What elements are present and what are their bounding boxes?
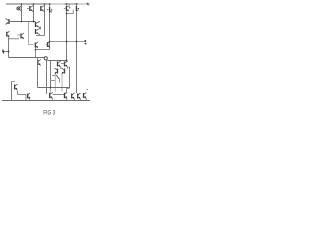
junction top rail at Q2 <box>33 3 35 5</box>
wire right quad jog drop <box>66 88 68 93</box>
svg-text:FIG 3: FIG 3 <box>43 111 56 117</box>
junction output at Q5 drop <box>66 41 68 43</box>
transistor Q9 <box>36 28 41 34</box>
wire node to quad <box>47 60 66 62</box>
wire right quad drop <box>69 67 71 89</box>
junction output at Q4 drop <box>49 41 51 43</box>
junction top rail at Q6 <box>76 3 78 5</box>
wire positive supply rail mid <box>51 3 64 5</box>
wire Q5 Q6 base tie <box>67 10 74 14</box>
transistor Q13 <box>38 59 41 65</box>
terminal input <box>3 50 4 54</box>
wire Q10 Q11 tie <box>9 38 20 40</box>
wire input lead <box>2 51 9 53</box>
wire mirror drop <box>28 22 30 45</box>
transistor Q16 <box>55 68 58 74</box>
wire quad base tie top <box>61 63 65 65</box>
terminal output upper <box>84 40 86 42</box>
wire Q23 emitter to rail <box>80 99 82 101</box>
wire Q21 emitter to rail <box>66 99 68 101</box>
transistor Q2 <box>30 5 34 11</box>
wire Q5 emitter drop <box>66 11 68 60</box>
wire Q22 emitter to rail <box>74 99 76 101</box>
transistor Q11 <box>21 33 24 39</box>
transistor Q22 <box>72 93 75 99</box>
transistor Q15 <box>65 61 68 67</box>
wire Q20 emitter to rail <box>52 99 54 101</box>
junction base bus <box>50 87 52 89</box>
node circle <box>44 57 47 60</box>
junction quad top <box>66 60 68 62</box>
wire Q5 rail hook <box>69 4 71 8</box>
junction top rail at Q1 <box>21 3 23 5</box>
wire Q13 drop <box>37 58 39 88</box>
junction top rail at Q4 <box>49 3 51 5</box>
wire Q19 base drop <box>25 95 27 101</box>
wire q16 corner <box>51 80 56 82</box>
transistor Q14 <box>58 61 61 67</box>
transistor Q17 <box>62 68 65 74</box>
terminal output lower <box>85 43 87 45</box>
wire right quad jog <box>67 87 70 89</box>
wire Q5 collector stub <box>66 4 68 6</box>
transistor Q12 <box>48 41 51 47</box>
junction base tie <box>66 13 68 15</box>
wire positive supply rail right <box>64 3 78 5</box>
transistor Q18 <box>15 84 18 90</box>
junction input node <box>8 51 10 53</box>
transistor Q1 <box>17 6 22 12</box>
wire Q24 collector tick <box>86 89 88 91</box>
wire Q4 emitter drop <box>49 13 51 50</box>
junction top rail at Q5 <box>66 3 68 5</box>
junction top rail at Q3 <box>44 3 46 5</box>
wire Q4 collector stub <box>49 4 51 7</box>
transistor Q25 <box>35 42 38 48</box>
transistor Q21 <box>65 92 68 99</box>
wire quad mid link b <box>67 67 69 70</box>
transistor Q6 <box>76 6 79 11</box>
wire Q25 emitter drop <box>35 48 37 50</box>
wire Q12 base tick <box>46 44 48 46</box>
wire Q3 drop to level shifter <box>44 4 46 36</box>
wire positive supply rail left <box>6 3 51 5</box>
transistor Q7 <box>6 18 10 24</box>
transistor Q8 <box>36 21 41 27</box>
wire bl corner tick <box>12 81 16 83</box>
wire output line <box>50 41 85 43</box>
junction Q1 drop on wire <box>21 21 23 23</box>
wire Q8 emitter link <box>40 27 42 30</box>
junction output at Q6 drop <box>76 41 78 43</box>
wire node drop left <box>46 60 48 94</box>
wire quad emitter tick <box>52 75 56 77</box>
wire base bus <box>38 87 70 89</box>
transistor Q5 <box>64 6 69 11</box>
wire mirror jog <box>29 44 34 46</box>
terminal V+ end of rail <box>87 3 90 6</box>
wire quad left drop <box>50 61 52 88</box>
wire Q2 emitter drop <box>33 4 35 22</box>
junction Q2 drop on wire <box>33 21 35 23</box>
wire Q24 emitter to rail <box>85 99 87 101</box>
transistor Q20 <box>50 92 53 99</box>
wire quad diagonal <box>56 75 59 79</box>
wire Q2 base stub <box>27 8 30 10</box>
junction mid wire <box>35 49 37 51</box>
wire long bias rail <box>9 57 45 59</box>
wire Q9 emitter out <box>36 35 45 37</box>
transistor Q19 <box>28 93 30 99</box>
wire Q11 base tick <box>17 34 20 36</box>
wire Q18 to Q19 <box>18 94 27 96</box>
wire corner drop <box>35 50 37 58</box>
wire quad bottom a <box>54 74 56 92</box>
wire base wire bottom <box>53 94 65 96</box>
wire Q20 collector stub <box>49 88 51 93</box>
wire positive supply rail end <box>78 3 87 5</box>
wire bl drop to rail <box>11 82 13 101</box>
transistor Q10 <box>7 31 10 37</box>
transistor Q23 <box>78 93 81 99</box>
wire ground rail <box>2 100 90 102</box>
transistor Q4 <box>47 7 52 13</box>
wire Q1 collector stub <box>21 4 23 22</box>
wire Q19 emitter to rail <box>29 99 31 101</box>
wire quad diag drop <box>59 79 61 82</box>
wire Q18 emitter drop <box>17 91 19 95</box>
wire quad bottom b <box>61 74 63 92</box>
wire Q6 collector stub <box>76 4 78 6</box>
transistor Q24 <box>84 92 87 98</box>
wire quad mid link a <box>60 67 62 70</box>
wire Q10 emitter drop <box>8 37 10 57</box>
wire Q6 emitter drop <box>76 11 78 93</box>
wire Q7 collector to node <box>10 21 36 23</box>
transistor Q3 <box>41 5 45 11</box>
wire Q12 emitter to corner <box>36 49 50 51</box>
